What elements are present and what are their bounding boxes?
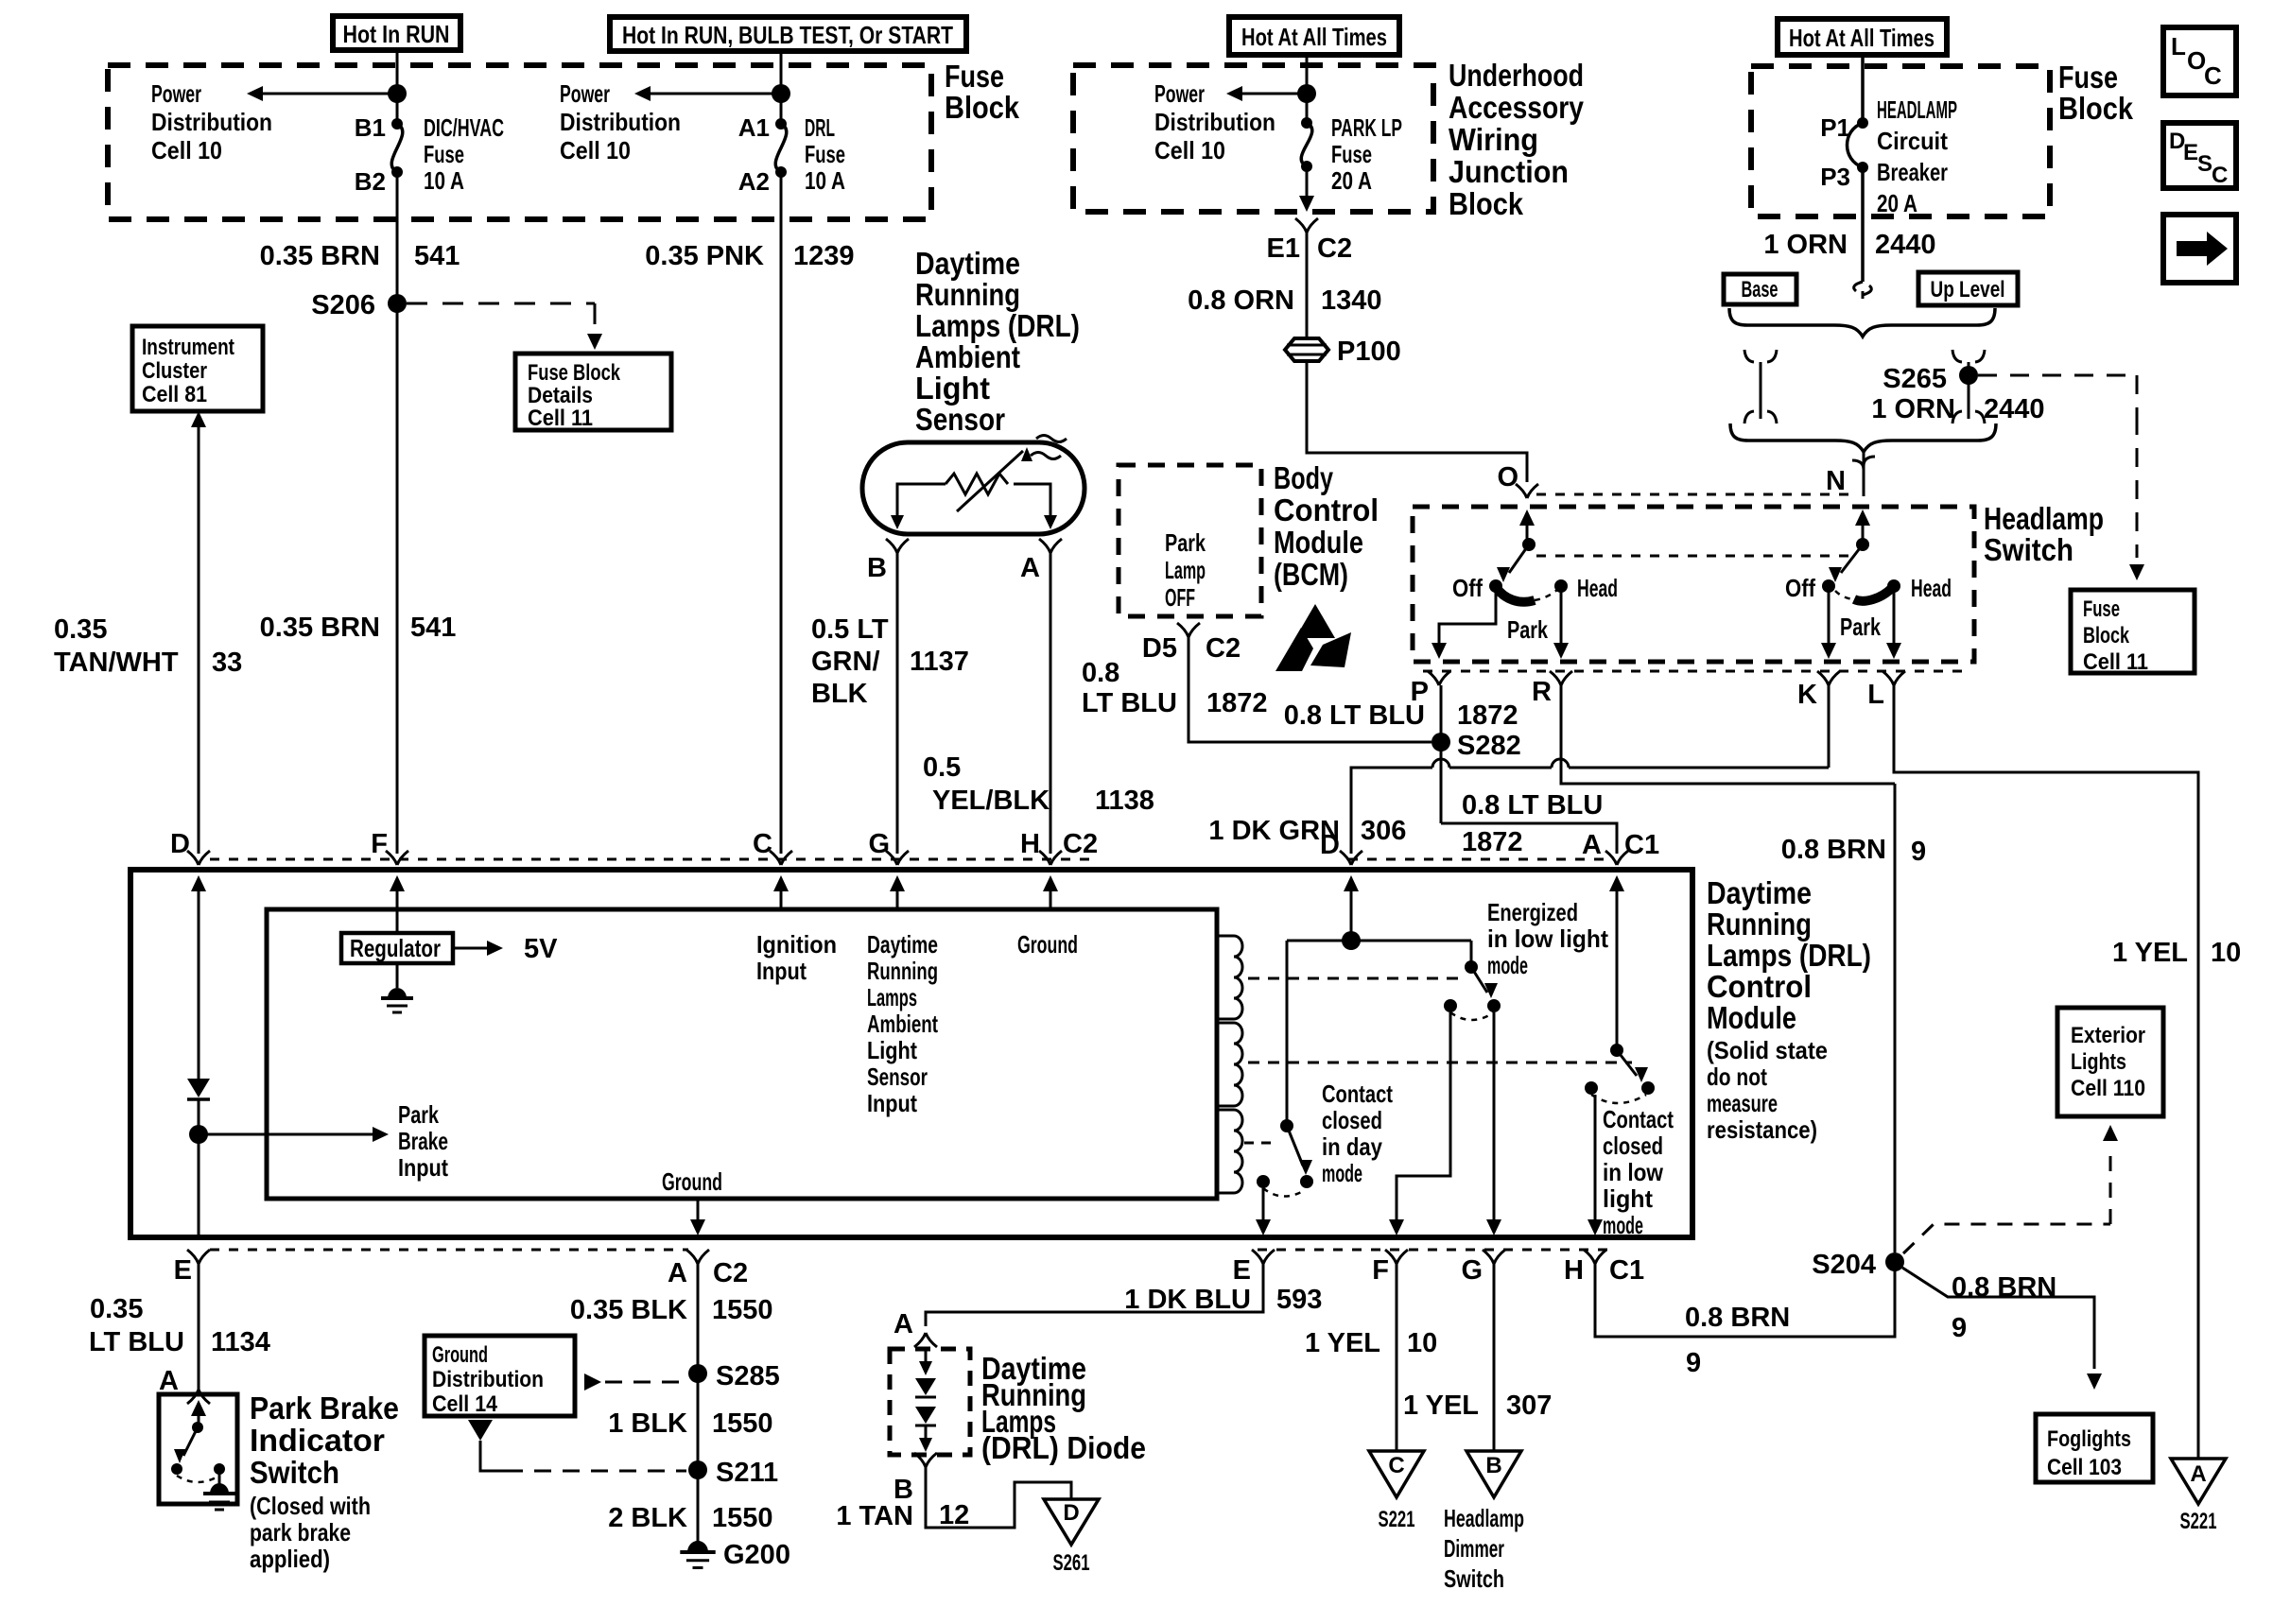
wire Hot In RUN to B1 — [396, 50, 399, 124]
switch SW2 Off contact — [1822, 579, 1835, 593]
switch SW2 pivot — [1856, 538, 1869, 551]
svg-text:S221: S221 — [1379, 1507, 1415, 1532]
dashed continuation to fuse block cell 11 box — [2136, 416, 2139, 558]
svg-text:Distribution: Distribution — [1154, 108, 1275, 136]
switch SW2 lever — [1841, 544, 1863, 573]
circuit breaker CB HEADLAMP 20A — [1857, 117, 1868, 129]
svg-text:20 A: 20 A — [1877, 189, 1917, 217]
svg-text:A: A — [1020, 553, 1040, 583]
svg-text:DRL: DRL — [805, 113, 835, 142]
regulator 5V output arrow — [453, 947, 487, 950]
svg-text:Ambient: Ambient — [915, 339, 1020, 374]
dashed lead S265 to fuse block cell 11 — [1978, 374, 2137, 377]
module pin H input arrow — [1050, 890, 1052, 909]
svg-text:E1: E1 — [1267, 233, 1300, 264]
svg-text:1872: 1872 — [1206, 688, 1268, 718]
svg-text:in low: in low — [1603, 1158, 1664, 1186]
svg-text:1 BLK: 1 BLK — [608, 1408, 687, 1439]
connector K — [1817, 671, 1840, 685]
splice S285 — [688, 1364, 707, 1383]
svg-text:B: B — [1485, 1453, 1501, 1478]
svg-text:R: R — [1532, 677, 1552, 707]
svg-text:O: O — [1497, 462, 1518, 492]
svg-text:Distribution: Distribution — [432, 1367, 544, 1392]
connector B diode — [914, 1453, 937, 1467]
switch SW2 input arrow — [1862, 524, 1865, 544]
svg-text:Switch: Switch — [1444, 1564, 1504, 1593]
svg-text:1239: 1239 — [793, 241, 855, 271]
wire energized fixed to F output — [1397, 1012, 1450, 1224]
svg-text:S282: S282 — [1457, 731, 1521, 761]
svg-text:0.8 BRN: 0.8 BRN — [1781, 835, 1886, 865]
svg-text:307: 307 — [1506, 1391, 1552, 1421]
svg-text:0.35 BLK: 0.35 BLK — [570, 1295, 687, 1325]
svg-text:C: C — [2204, 61, 2222, 90]
svg-text:9: 9 — [1686, 1348, 1701, 1378]
svg-text:LT BLU: LT BLU — [89, 1327, 184, 1357]
svg-text:C: C — [1388, 1453, 1404, 1478]
energized dashed arc — [1450, 1012, 1494, 1020]
svg-text:P3: P3 — [1820, 163, 1850, 191]
connector O — [1516, 484, 1538, 498]
svg-text:Block: Block — [1449, 186, 1524, 221]
day mode switch lever — [1287, 1126, 1303, 1166]
box park brake indicator switch SW3 — [159, 1394, 237, 1504]
wire SW2 Off to K output — [1828, 586, 1831, 645]
diode pack internal — [925, 1349, 928, 1364]
svg-text:Cell 10: Cell 10 — [151, 136, 222, 164]
svg-text:Headlamp: Headlamp — [1984, 501, 2104, 536]
svg-text:D5: D5 — [1142, 633, 1177, 664]
svg-text:G: G — [1461, 1255, 1483, 1286]
splice S206 — [388, 294, 407, 313]
label box Hot At All Times mid — [1229, 17, 1399, 55]
wire E1 to P100 — [1306, 233, 1309, 338]
svg-text:A2: A2 — [738, 167, 770, 196]
wire Hot At All Times to PARK LP fuse — [1306, 55, 1309, 123]
wire S204 to foglights — [1902, 1268, 2094, 1369]
svg-text:mode: mode — [1603, 1211, 1643, 1239]
svg-text:H: H — [1020, 829, 1040, 859]
label box Up Level — [1918, 272, 2018, 305]
svg-text:YEL/BLK: YEL/BLK — [932, 786, 1050, 816]
wire 33 to instrument cluster with arrow — [198, 425, 200, 854]
connector D right top — [1340, 851, 1362, 865]
wire fuse to E1 with arrow — [1306, 166, 1309, 199]
svg-text:5V: 5V — [524, 934, 558, 964]
svg-text:C2: C2 — [1206, 633, 1241, 664]
svg-text:Ground: Ground — [1017, 930, 1078, 959]
wire day mode contact to E output — [1262, 1188, 1265, 1224]
switch SW2 dashed arc — [1835, 591, 1854, 599]
svg-text:Input: Input — [867, 1089, 917, 1117]
svg-text:593: 593 — [1276, 1285, 1322, 1315]
DRL diode dashed box — [890, 1349, 970, 1455]
svg-text:K: K — [1797, 680, 1817, 710]
mechanical link dashed between switch halves — [1536, 555, 1848, 558]
svg-text:Input: Input — [756, 957, 807, 985]
connector E1 C2 — [1295, 218, 1318, 233]
svg-text:G: G — [868, 829, 890, 859]
fuse block dashed box — [108, 65, 931, 219]
svg-text:0.8 LT BLU: 0.8 LT BLU — [1462, 790, 1603, 821]
svg-text:0.35: 0.35 — [54, 614, 107, 645]
svg-text:Instrument: Instrument — [142, 335, 234, 360]
svg-text:Ignition: Ignition — [756, 930, 837, 959]
splice S282 — [1431, 733, 1450, 752]
sensor internal leads — [897, 484, 1050, 526]
svg-text:(DRL) Diode: (DRL) Diode — [981, 1430, 1146, 1465]
svg-text:0.35 PNK: 0.35 PNK — [645, 241, 764, 271]
connector C top — [770, 851, 792, 865]
svg-text:TAN/WHT: TAN/WHT — [54, 648, 179, 678]
svg-text:S204: S204 — [1812, 1250, 1876, 1280]
svg-text:541: 541 — [414, 241, 460, 271]
svg-text:1 DK BLU: 1 DK BLU — [1124, 1285, 1251, 1315]
svg-text:Base: Base — [1742, 277, 1778, 302]
svg-text:Cell 110: Cell 110 — [2071, 1076, 2145, 1101]
fuse block right dashed box — [1751, 66, 2050, 216]
svg-text:Body: Body — [1274, 460, 1333, 495]
svg-text:Hot At All Times: Hot At All Times — [1241, 23, 1387, 51]
svg-text:20 A: 20 A — [1331, 166, 1372, 195]
connector L — [1883, 671, 1905, 685]
svg-text:Light: Light — [867, 1036, 917, 1064]
svg-text:0.8 ORN: 0.8 ORN — [1188, 285, 1294, 316]
regulator ground — [396, 963, 399, 988]
box Park Lamp OFF dashed — [1119, 465, 1261, 616]
svg-text:10: 10 — [1407, 1328, 1437, 1358]
svg-text:Accessory: Accessory — [1449, 90, 1585, 125]
low light switch pivot — [1610, 1044, 1623, 1057]
svg-text:Power: Power — [560, 79, 610, 108]
svg-text:BLK: BLK — [811, 679, 868, 709]
svg-text:B2: B2 — [355, 167, 386, 196]
switch SW2 rotor arc — [1854, 588, 1892, 601]
park brake switch arrow input — [198, 1414, 200, 1427]
svg-text:10: 10 — [2211, 938, 2241, 968]
svg-text:Module: Module — [1274, 525, 1363, 560]
wire A2 down to module pin C — [780, 172, 783, 854]
svg-text:Lights: Lights — [2071, 1049, 2126, 1075]
svg-text:S221: S221 — [2180, 1509, 2217, 1534]
low light moving contact — [1641, 1081, 1655, 1095]
svg-text:Circuit: Circuit — [1877, 127, 1948, 155]
wire H output to S204 — [1595, 1262, 1895, 1337]
svg-text:Distribution: Distribution — [560, 108, 681, 136]
svg-text:Junction: Junction — [1449, 154, 1569, 189]
wire R continues down to S204 — [1894, 784, 1897, 1253]
svg-text:9: 9 — [1952, 1313, 1967, 1343]
svg-text:1 YEL: 1 YEL — [1403, 1391, 1479, 1421]
svg-text:Details: Details — [528, 383, 593, 408]
dashed connector line P R K L — [1423, 670, 1967, 673]
svg-text:10 A: 10 A — [805, 166, 845, 195]
svg-text:Headlamp: Headlamp — [1444, 1504, 1524, 1532]
coil K2 — [1217, 1023, 1242, 1106]
svg-text:C2: C2 — [713, 1258, 748, 1288]
wire SW1 Off to P output — [1439, 586, 1496, 639]
off-page triangle A S221 bottom right — [2171, 1459, 2226, 1504]
svg-text:Cell 14: Cell 14 — [432, 1391, 498, 1417]
svg-text:Contact: Contact — [1322, 1080, 1393, 1108]
svg-text:Foglights: Foglights — [2047, 1426, 2131, 1452]
module pin F input arrow — [396, 890, 399, 909]
switch SW1 Head contact — [1554, 579, 1568, 593]
fuse F PARK LP 20A — [1301, 117, 1312, 129]
svg-text:C2: C2 — [1317, 233, 1352, 264]
wire D internal — [198, 884, 200, 1079]
dashed connector line C1 top — [1348, 858, 1613, 861]
svg-text:541: 541 — [410, 613, 456, 643]
svg-text:OFF: OFF — [1165, 583, 1195, 612]
svg-text:Underhood: Underhood — [1449, 58, 1584, 93]
low light dashed arc — [1591, 1095, 1646, 1103]
svg-text:do not: do not — [1707, 1063, 1767, 1091]
svg-text:1550: 1550 — [712, 1503, 773, 1533]
wire B diode to S261 — [926, 1467, 1071, 1528]
svg-text:P100: P100 — [1337, 337, 1401, 367]
svg-text:Switch: Switch — [1984, 532, 2073, 567]
connector G top — [886, 851, 909, 865]
off-page triangle C S221 — [1369, 1451, 1424, 1497]
connector A park brake switch — [187, 1390, 210, 1404]
label box Hot In RUN — [333, 16, 460, 50]
svg-text:S211: S211 — [716, 1458, 778, 1488]
svg-text:in day: in day — [1322, 1132, 1382, 1161]
park brake switch ground — [218, 1469, 221, 1484]
svg-text:closed: closed — [1322, 1106, 1382, 1134]
energized moving contact — [1487, 999, 1501, 1012]
wire energized moving to G output — [1493, 1012, 1496, 1224]
park brake input arrow — [199, 1133, 373, 1136]
switch SW2 Head contact — [1887, 579, 1900, 593]
svg-text:Running: Running — [1707, 907, 1812, 942]
energized switch lever — [1471, 967, 1487, 993]
svg-text:1550: 1550 — [712, 1295, 773, 1325]
box Ground Distribution Cell 14 — [425, 1336, 575, 1416]
energized switch pivot — [1465, 960, 1478, 974]
connector H bottom — [1584, 1250, 1606, 1264]
svg-text:S285: S285 — [716, 1361, 780, 1391]
svg-text:E: E — [2183, 140, 2198, 165]
svg-text:1137: 1137 — [910, 647, 969, 677]
svg-text:Block: Block — [2058, 91, 2134, 126]
up level branch bracket lower — [1952, 411, 1985, 423]
svg-text:B: B — [867, 553, 887, 583]
svg-text:Fuse: Fuse — [805, 140, 845, 168]
svg-text:F: F — [371, 829, 388, 859]
icon box LOC — [2163, 27, 2236, 95]
svg-text:Lamps (DRL): Lamps (DRL) — [1707, 938, 1871, 973]
wire F output to S221 C — [1396, 1264, 1398, 1451]
svg-text:H: H — [1564, 1255, 1584, 1286]
svg-text:Off: Off — [1785, 574, 1815, 602]
splice S211 — [688, 1460, 707, 1479]
label box Hot In RUN BULB TEST Or START — [610, 17, 966, 51]
svg-text:(Solid state: (Solid state — [1707, 1036, 1828, 1064]
wire E2 to DRL diode A — [926, 1264, 1263, 1326]
svg-text:Cell 11: Cell 11 — [528, 406, 593, 431]
svg-text:1872: 1872 — [1462, 827, 1523, 857]
svg-text:1872: 1872 — [1457, 700, 1518, 731]
fuse F DRL 10A — [775, 118, 787, 130]
dashed lead S204 to exterior lights — [1903, 1224, 2110, 1253]
svg-text:Wiring: Wiring — [1449, 122, 1538, 157]
svg-text:HEADLAMP: HEADLAMP — [1877, 95, 1957, 124]
svg-text:Cell 11: Cell 11 — [2083, 649, 2148, 675]
wire arrow to Power Distribution left — [263, 93, 397, 95]
module D bus — [1350, 884, 1353, 941]
svg-text:1 YEL: 1 YEL — [1305, 1328, 1380, 1358]
connector D5 C2 — [1177, 623, 1200, 637]
svg-text:Control: Control — [1274, 492, 1379, 527]
svg-text:DIC/HVAC: DIC/HVAC — [424, 113, 504, 142]
svg-text:2440: 2440 — [1875, 230, 1936, 260]
option merge brace lower — [1730, 423, 1996, 452]
connector F bottom — [1385, 1250, 1408, 1264]
connector F top — [386, 851, 408, 865]
svg-text:mode: mode — [1322, 1159, 1362, 1187]
svg-text:1 ORN: 1 ORN — [1763, 230, 1848, 260]
svg-text:C1: C1 — [1609, 1255, 1644, 1286]
svg-text:closed: closed — [1603, 1132, 1663, 1160]
switch SW1 lever — [1509, 544, 1529, 573]
svg-text:Contact: Contact — [1603, 1105, 1674, 1133]
wire R to S204 branch — [1561, 685, 1895, 784]
svg-text:S261: S261 — [1053, 1550, 1090, 1576]
coil K3 — [1217, 1110, 1242, 1193]
wire low light fixed to H output — [1594, 1095, 1597, 1224]
svg-text:Brake: Brake — [398, 1127, 448, 1155]
fuse F DIC/HVAC 10A — [391, 118, 403, 130]
connector E2 bottom — [1252, 1250, 1275, 1264]
svg-text:Park Brake: Park Brake — [250, 1391, 399, 1425]
photoresistor R zigzag — [946, 474, 1008, 494]
switch SW1 pivot — [1522, 538, 1536, 551]
svg-text:C1: C1 — [1624, 830, 1659, 860]
wire SW2 Head to L output — [1893, 586, 1896, 645]
svg-text:Lamp: Lamp — [1165, 556, 1206, 584]
svg-text:S265: S265 — [1883, 364, 1947, 394]
svg-text:F: F — [1372, 1255, 1389, 1286]
svg-text:Cell 10: Cell 10 — [560, 136, 631, 164]
label box Hot At All Times right — [1778, 19, 1947, 55]
svg-text:Daytime: Daytime — [915, 246, 1020, 281]
svg-text:2 BLK: 2 BLK — [608, 1503, 687, 1533]
svg-text:Sensor: Sensor — [867, 1063, 928, 1091]
svg-text:Hot In RUN, BULB TEST, Or STAR: Hot In RUN, BULB TEST, Or START — [622, 21, 953, 49]
park brake switch pivot — [192, 1422, 203, 1433]
svg-text:0.35 BRN: 0.35 BRN — [260, 241, 380, 271]
node junction on PARK LP feed — [1297, 84, 1316, 103]
low light fixed contact — [1585, 1081, 1598, 1095]
park brake switch lever — [183, 1427, 198, 1456]
svg-text:0.5 LT: 0.5 LT — [811, 614, 889, 645]
svg-text:0.8 LT BLU: 0.8 LT BLU — [1284, 700, 1425, 731]
svg-text:1550: 1550 — [712, 1408, 773, 1439]
svg-text:A: A — [668, 1258, 687, 1288]
wire K to module D — [1828, 685, 1831, 768]
ground distribution triangle arrow — [468, 1420, 493, 1441]
wire L to 1 YEL 10 right — [1894, 685, 2198, 1459]
ESD sensitivity symbol — [1295, 604, 1335, 638]
svg-text:Park: Park — [1507, 615, 1548, 644]
svg-text:E: E — [1233, 1255, 1251, 1286]
switch SW1 input arrow — [1526, 524, 1529, 544]
module pin C input arrow — [780, 890, 783, 909]
low light switch feed — [1616, 884, 1619, 1050]
svg-text:D: D — [1063, 1500, 1079, 1526]
svg-text:C: C — [2212, 163, 2228, 188]
day mode moving contact — [1300, 1175, 1313, 1188]
svg-text:Fuse: Fuse — [424, 140, 464, 168]
wire SW1 Head to R output — [1560, 586, 1563, 645]
svg-text:S206: S206 — [311, 290, 375, 320]
wire 541 to module pin F — [396, 303, 399, 854]
box Foglights Cell 103 — [2036, 1414, 2153, 1482]
icon box DESC — [2163, 123, 2236, 188]
node junction on DIC/HVAC feed — [388, 84, 407, 103]
box Regulator — [396, 909, 399, 933]
park brake switch contacts — [171, 1463, 182, 1475]
svg-text:Fuse: Fuse — [945, 59, 1004, 94]
svg-text:1 TAN: 1 TAN — [836, 1501, 913, 1531]
wire hop line K to D — [1569, 767, 1829, 769]
svg-text:1138: 1138 — [1095, 786, 1154, 816]
mech link coil3 dashed — [1244, 1142, 1278, 1145]
svg-text:A: A — [2190, 1461, 2206, 1487]
svg-text:1 YEL: 1 YEL — [2112, 938, 2188, 968]
svg-text:Sensor: Sensor — [915, 402, 1005, 437]
wire sensor B to module G — [896, 553, 899, 854]
svg-text:Block: Block — [2083, 623, 2129, 648]
wire P continues to A connector — [1441, 823, 1617, 854]
svg-text:0.35: 0.35 — [90, 1294, 143, 1324]
diode CR1 in module — [187, 1079, 210, 1097]
svg-text:PARK LP: PARK LP — [1331, 113, 1402, 142]
svg-text:0.35 BRN: 0.35 BRN — [260, 613, 380, 643]
connector E bottom — [187, 1250, 210, 1264]
energized fixed contact — [1444, 999, 1457, 1012]
svg-text:2440: 2440 — [1984, 394, 2045, 424]
svg-text:GRN/: GRN/ — [811, 647, 880, 677]
wire A C2 ground chain — [697, 1264, 700, 1541]
svg-text:Up Level: Up Level — [1931, 277, 2005, 302]
svg-text:Ground: Ground — [662, 1167, 722, 1196]
svg-text:0.8 BRN: 0.8 BRN — [1685, 1303, 1790, 1333]
svg-text:306: 306 — [1361, 816, 1406, 846]
svg-text:Power: Power — [151, 79, 201, 108]
svg-text:in low light: in low light — [1487, 924, 1608, 953]
svg-text:L: L — [2171, 32, 2186, 60]
base branch bracket — [1744, 350, 1777, 419]
svg-text:(BCM): (BCM) — [1274, 557, 1348, 592]
svg-text:B1: B1 — [355, 113, 386, 142]
svg-text:Input: Input — [398, 1153, 448, 1182]
svg-text:1 ORN: 1 ORN — [1871, 394, 1955, 424]
svg-text:Cell 10: Cell 10 — [1154, 136, 1225, 164]
dashed lead to S285 — [584, 1373, 601, 1391]
dashed connector line C1 bottom — [1258, 1249, 1607, 1252]
svg-text:Lamps (DRL): Lamps (DRL) — [915, 308, 1080, 343]
connector A bottom — [686, 1250, 709, 1264]
module pin G input arrow — [896, 890, 899, 909]
wire E to park brake switch — [198, 1264, 200, 1390]
wire B2 down through fuse block — [396, 172, 399, 303]
svg-text:A: A — [1582, 830, 1602, 860]
label box Base — [1724, 274, 1796, 304]
